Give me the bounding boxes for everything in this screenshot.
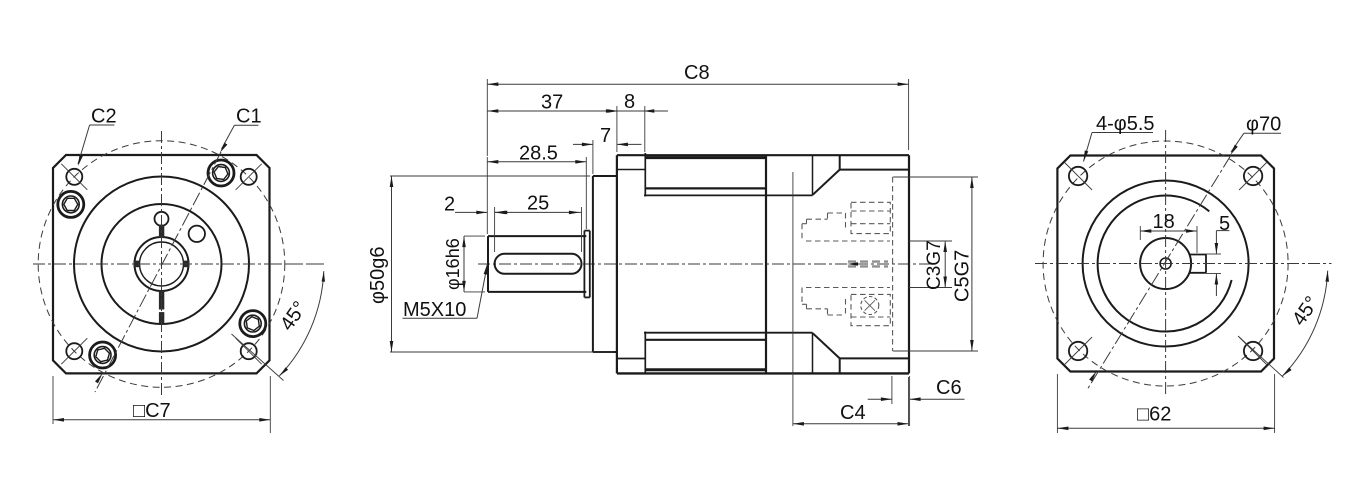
left view socket screw C1-1 <box>208 160 234 186</box>
dim 37 line <box>487 109 617 113</box>
hidden clamp screw symbol <box>861 297 879 315</box>
label 25 <box>527 193 549 215</box>
label 4-phi5.5 leader <box>1084 133 1154 162</box>
right view shaft bore circle <box>1140 238 1191 289</box>
top slot lines <box>644 158 813 196</box>
svg-text:28.5: 28.5 <box>519 143 558 165</box>
chamfer zone boundary <box>812 155 814 373</box>
left view mounting hole C2-1 <box>61 164 87 190</box>
bottom slot lines <box>644 333 813 370</box>
right view mounting hole 2 (4-phi5.5) <box>1239 162 1267 190</box>
label 45deg right view <box>1288 292 1323 329</box>
dim 18 extensions <box>1140 226 1197 253</box>
left view socket screw C1-2 <box>240 311 266 337</box>
dim 25 extensions <box>495 207 582 252</box>
dim 8 line <box>608 109 669 113</box>
dim phi16h6 extensions <box>464 236 485 292</box>
svg-text:37: 37 <box>541 92 563 114</box>
label 8 <box>624 91 635 113</box>
left view mounting hole C2-4 <box>236 338 262 364</box>
dim 8 extension <box>644 106 646 152</box>
left view access hole <box>189 226 205 242</box>
svg-text:C2: C2 <box>91 106 117 128</box>
dim C8 line <box>487 82 908 86</box>
hidden bore top <box>806 240 890 242</box>
dim C6 extensions <box>892 376 910 426</box>
right view 45-degree arc <box>1282 271 1329 377</box>
label C6 <box>936 377 962 399</box>
left view bore inner circle <box>140 242 184 286</box>
dim 2 line <box>455 211 508 215</box>
left view bore left notch <box>134 261 140 268</box>
svg-text:7: 7 <box>600 125 611 147</box>
right view 45-degree line <box>1238 336 1284 378</box>
svg-text:C8: C8 <box>684 62 710 84</box>
label phi16h6 <box>443 238 463 290</box>
right view mounting hole 3 (4-phi5.5) <box>1064 337 1092 365</box>
right view mounting hole 4 (4-phi5.5) <box>1239 337 1267 365</box>
shaft collar ring <box>584 231 589 298</box>
front flange corner lines <box>617 170 645 359</box>
body top edge <box>617 154 909 156</box>
left view flange outline (chamfered square) <box>53 155 270 373</box>
right view diagonal pitch line <box>1088 156 1231 389</box>
dim 7 extension <box>592 140 594 174</box>
left view vertical centerline <box>161 131 163 397</box>
dim C5G7 extensions <box>894 177 978 351</box>
svg-text:φ50g6: φ50g6 <box>367 247 389 304</box>
pilot boss <box>593 176 617 352</box>
hidden step top <box>802 213 846 241</box>
svg-text:2: 2 <box>444 194 455 216</box>
dim 28.5 extensions <box>487 157 586 234</box>
slot section left wall <box>644 153 646 374</box>
right view key <box>1189 255 1206 273</box>
svg-text:5: 5 <box>1219 213 1230 235</box>
left view bore outer circle <box>135 237 189 291</box>
right view open ring <box>1098 196 1232 332</box>
dim C3G7 line <box>943 241 947 288</box>
right view vertical centerline <box>1165 130 1167 397</box>
rear chamfer top <box>813 155 909 195</box>
dim phi50g6 extensions <box>390 176 614 352</box>
svg-text:C5G7: C5G7 <box>952 250 974 302</box>
left view bottom clamp slit <box>158 290 165 324</box>
left view socket screw C1-4 <box>58 191 84 217</box>
right view center hole <box>1160 258 1171 269</box>
left view bore right notch <box>183 261 189 268</box>
hidden coupling bore at centerline <box>847 262 888 267</box>
svg-text:C3G7: C3G7 <box>924 240 945 290</box>
label C8 <box>684 62 710 84</box>
dim phi16h6 line <box>462 236 466 292</box>
label phi70 <box>1246 114 1281 136</box>
hidden rear recess <box>893 177 909 351</box>
dim 37 extension <box>616 106 618 152</box>
dim C3G7 extensions <box>909 241 952 288</box>
label C1 leader <box>220 125 259 153</box>
right view horizontal centerline <box>1035 263 1332 265</box>
left view mounting hole C2-3 <box>61 338 87 364</box>
left view diagonal pitch line <box>95 152 221 392</box>
svg-text:□62: □62 <box>1137 404 1171 426</box>
label 4-phi5.5 <box>1096 113 1155 135</box>
label 28.5 <box>519 143 558 165</box>
dim C5G7 line <box>970 177 974 351</box>
svg-text:□C7: □C7 <box>133 400 171 422</box>
dim 28.5 line <box>487 160 586 164</box>
left view outer boss circle <box>74 177 249 352</box>
left view centerline extension right <box>270 263 327 265</box>
dim C4 extensions <box>793 172 909 426</box>
hidden bore bottom <box>806 287 890 289</box>
label phi70 leader <box>1230 133 1281 155</box>
right view flange outline (chamfered square) <box>1057 156 1274 372</box>
left view 45-degree arc <box>279 271 325 376</box>
dim 62 line <box>1057 427 1274 431</box>
dim C8 extensions <box>487 79 908 156</box>
svg-text:8: 8 <box>624 91 635 113</box>
label 18 <box>1153 211 1175 233</box>
svg-text:C1: C1 <box>236 106 262 128</box>
mid section boundary <box>765 155 767 373</box>
body rear face <box>908 155 910 373</box>
label C1 <box>236 106 262 128</box>
left view bolt-circle (dashed) <box>38 141 285 388</box>
left view socket screw C1-3 <box>90 342 116 368</box>
shaft outline <box>488 236 586 292</box>
left view mounting hole C2-2 <box>236 164 262 190</box>
label C2 <box>91 106 117 128</box>
label M5X10 with leader <box>403 264 488 322</box>
shaft keyway <box>495 254 582 274</box>
right view mounting hole 1 (4-phi5.5) <box>1064 162 1092 190</box>
dim 5 extensions <box>1206 254 1221 274</box>
dim 62 extensions <box>1057 374 1274 433</box>
left view clamp screw pin circle <box>155 212 169 226</box>
dim 7 line <box>573 143 642 147</box>
dim phi50g6 line <box>390 176 394 352</box>
left view 45-degree line <box>232 334 284 381</box>
rear chamfer bottom <box>813 333 909 373</box>
label C3G7 <box>924 240 945 290</box>
middle view centerline <box>478 263 936 265</box>
svg-text:φ70: φ70 <box>1246 114 1281 136</box>
label C7 <box>133 400 171 422</box>
label 7 <box>600 125 611 147</box>
svg-text:M5X10: M5X10 <box>403 299 466 321</box>
label phi50g6 <box>367 247 389 304</box>
svg-text:C6: C6 <box>936 377 962 399</box>
body bottom edge <box>617 372 909 374</box>
right view bolt-circle (dashed) <box>1043 141 1288 386</box>
left view horizontal centerline <box>33 263 327 265</box>
label 62 <box>1137 404 1171 426</box>
label 37 <box>541 92 563 114</box>
hidden screw pocket bottom <box>851 294 890 325</box>
label 5 <box>1219 213 1230 235</box>
label C5G7 <box>952 250 974 302</box>
hidden screw pocket top <box>851 202 890 233</box>
left view top slot <box>159 225 164 238</box>
svg-text:18: 18 <box>1153 211 1175 233</box>
svg-text:25: 25 <box>527 193 549 215</box>
body front face <box>616 155 618 373</box>
label C2 leader <box>78 125 114 166</box>
svg-text:φ16h6: φ16h6 <box>443 238 463 290</box>
label 45deg left view <box>276 297 311 334</box>
hidden step bottom <box>802 288 846 316</box>
right view pilot circle <box>1083 181 1249 347</box>
label C4 <box>840 402 866 424</box>
svg-text:C4: C4 <box>840 402 866 424</box>
svg-text:4-φ5.5: 4-φ5.5 <box>1096 113 1155 135</box>
dim C4 line <box>793 422 909 426</box>
dim 25 line <box>495 211 582 215</box>
dim C6 line <box>868 397 965 401</box>
dim C7 extension lines <box>53 376 270 433</box>
label 2 <box>444 194 455 216</box>
dim C7 line <box>53 418 270 422</box>
left view clamp-hub circle <box>102 204 222 324</box>
dim 18 line <box>1140 229 1197 233</box>
dim 5 line <box>1215 231 1230 296</box>
